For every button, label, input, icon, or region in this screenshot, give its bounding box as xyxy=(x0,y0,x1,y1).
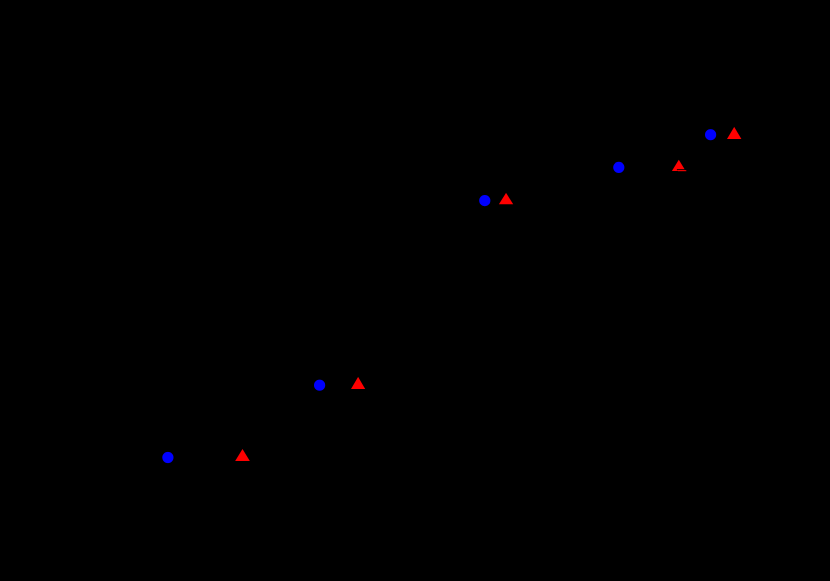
red triangle 4 xyxy=(672,160,686,171)
red triangle 5 xyxy=(727,127,741,139)
blue point 2 xyxy=(314,380,325,391)
red triangle 3 xyxy=(499,193,513,204)
blue point 4 xyxy=(613,162,624,173)
red dash under triangle 4 xyxy=(678,170,686,171)
black cut line over triangle 4 xyxy=(677,169,688,170)
blue point 5 xyxy=(705,129,716,140)
blue point 1 xyxy=(162,452,173,463)
red triangle 2 xyxy=(351,377,365,389)
blue point 3 xyxy=(479,195,490,206)
red triangle 1 xyxy=(235,449,250,461)
